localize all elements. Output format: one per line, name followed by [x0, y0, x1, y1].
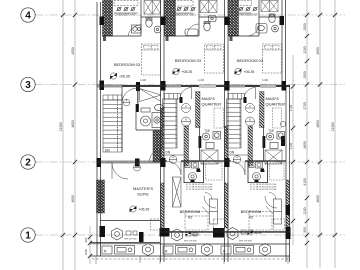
WIC dashed C [270, 163, 285, 180]
dim ticks left [61, 13, 77, 237]
svg-text:4600: 4600 [303, 141, 307, 149]
unit C [221, 246, 231, 254]
unit B sink [209, 16, 217, 22]
svg-text:BEDROOM 03: BEDROOM 03 [114, 62, 141, 67]
hexagon tables row1 [112, 228, 239, 242]
structural columns (black) [97, 16, 291, 242]
dining level markers [185, 231, 190, 236]
svg-text:1T 2L 1B 3S 1R 2W 1D 1SH: 1T 2L 1B 3S 1R 2W 1D 1SH [250, 189, 277, 191]
svg-text:1000: 1000 [303, 23, 307, 31]
unit B tub [185, 29, 198, 36]
svg-text:13350: 13350 [331, 122, 335, 131]
svg-text:13350: 13350 [59, 122, 63, 131]
unit A chute triangle [140, 89, 162, 102]
svg-text:4650: 4650 [316, 120, 320, 128]
grid bubble 1 [21, 228, 35, 242]
svg-text:MAID'S: MAID'S [202, 96, 216, 101]
bedroom02 door arcs [204, 196, 277, 208]
svg-text:MASTER'S: MASTER'S [133, 186, 153, 191]
chairs row units [117, 7, 258, 11]
condenser platform edges [114, 12, 252, 14]
svg-text:2: 2 [25, 158, 31, 169]
svg-text:MAID'S: MAID'S [266, 96, 280, 101]
unit A [102, 246, 112, 254]
svg-text:SUITE: SUITE [137, 192, 149, 197]
bottom rails [92, 256, 290, 264]
svg-text:T&B: T&B [268, 129, 274, 133]
beds bedroom03 [142, 44, 282, 75]
svg-text:1150: 1150 [303, 207, 307, 214]
svg-text:DN: DN [105, 149, 110, 153]
units B/C bedroom02 bottom walls [160, 231, 290, 233]
beds bedroom02 (dashed) [185, 207, 273, 231]
master suite label [133, 186, 153, 197]
level markers bedroom03 [110, 68, 254, 79]
svg-text:QUARTER: QUARTER [202, 102, 222, 107]
svg-text:4650: 4650 [71, 195, 75, 203]
svg-text:1.00: 1.00 [262, 78, 268, 82]
svg-text:REF DW WM: REF DW WM [184, 241, 197, 243]
WIC dashed B [206, 163, 223, 180]
tiny spec text rows [186, 184, 277, 191]
svg-text:+06.35: +06.35 [119, 75, 130, 79]
unit C bath door arc [247, 24, 259, 36]
door arcs at grid2 [112, 162, 245, 180]
maid's quarter labels [202, 96, 286, 107]
unit B stair [163, 94, 185, 156]
svg-text:BEDROOM 03: BEDROOM 03 [237, 58, 264, 63]
unit A mid door arc [122, 88, 138, 104]
svg-text:4650: 4650 [316, 195, 320, 203]
unit A sink [154, 26, 161, 33]
bedroom02 T&B unit C [248, 161, 268, 183]
shower X boxes [144, 1, 278, 15]
unit C void X [265, 150, 282, 164]
svg-text:02: 02 [188, 215, 193, 220]
svg-text:4050: 4050 [316, 47, 320, 55]
svg-text:900: 900 [84, 237, 88, 242]
door tags circles B [169, 104, 285, 164]
tiny appliance text rows [124, 239, 252, 243]
svg-text:REF DW WM: REF DW WM [239, 241, 252, 243]
svg-text:T&B: T&B [204, 129, 210, 133]
party wall A/B [160, 0, 162, 262]
svg-text:4650: 4650 [71, 120, 75, 128]
unit C maid bath fixtures [266, 132, 284, 149]
svg-text:CONDENSER UNIT: CONDENSER UNIT [114, 14, 136, 17]
master level marker [130, 206, 137, 213]
unit C stair [227, 94, 249, 156]
bedroom 03 labels [114, 58, 264, 67]
grid bubble 3 [21, 77, 35, 91]
window sill stubs below top hatch bands [103, 36, 233, 41]
unit A kitchen walls [90, 242, 160, 244]
unit A door tag [123, 99, 130, 106]
svg-text:CONDENSER UNIT: CONDENSER UNIT [236, 14, 258, 17]
unit A master bottom wall [90, 221, 290, 257]
unit A stair [103, 95, 122, 152]
right outer wall [281, 0, 283, 90]
unit B toilet [204, 22, 210, 31]
svg-text:1.00: 1.00 [198, 78, 204, 82]
svg-text:+06.35: +06.35 [244, 70, 255, 74]
entry/closet wall y=36 [102, 35, 141, 37]
kitchen counters [102, 244, 271, 256]
svg-text:1: 1 [25, 231, 31, 242]
svg-text:4150: 4150 [303, 178, 307, 186]
door width labels [140, 78, 268, 82]
svg-text:3: 3 [25, 80, 31, 91]
bedroom02 T&B unit B [184, 161, 204, 183]
grid dashed centerlines [36, 15, 346, 235]
unit B bath door arc [187, 24, 199, 36]
svg-text:1T 2L 1B 3S 1R 2W 1D 1SH: 1T 2L 1B 3S 1R 2W 1D 1SH [186, 189, 213, 191]
hatch band frames [103, 0, 113, 36]
unit A hall-to-suite door arc [150, 151, 161, 162]
unit A stair hall wall [121, 87, 123, 152]
small bottom-left dim chain [89, 226, 91, 264]
master suite closet [173, 177, 182, 207]
unit B/C mid walls y=161 [164, 160, 286, 162]
svg-text:+06.05: +06.05 [254, 231, 263, 235]
svg-text:CONDENSER UNIT: CONDENSER UNIT [173, 14, 195, 17]
svg-text:1.00: 1.00 [140, 78, 146, 82]
unit A toilet [146, 19, 152, 27]
wardrobes right bedroom02 [205, 193, 282, 225]
svg-text:+06.35: +06.35 [139, 208, 150, 212]
grid3 window wall : windows (triple line) [97, 85, 245, 87]
svg-text:REF DW WM: REF DW WM [124, 239, 137, 241]
svg-text:DN: DN [230, 151, 235, 155]
svg-text:1700: 1700 [303, 102, 307, 110]
svg-text:02: 02 [249, 215, 254, 220]
unit A grid2 wall [97, 161, 160, 163]
bath partition verticals [140, 0, 142, 36]
unit C toilet [269, 14, 275, 22]
toilets / sinks top baths [128, 14, 278, 36]
svg-text:+06.35: +06.35 [182, 70, 193, 74]
svg-text:QUARTER: QUARTER [266, 102, 286, 107]
tag numbers [126, 99, 252, 160]
svg-text:1500: 1500 [84, 248, 88, 255]
grid bubble 4 [21, 8, 35, 22]
wardrobes dashed [151, 219, 285, 230]
maid partitions vertical [136, 87, 264, 161]
grid bubble 2 [21, 155, 35, 169]
svg-text:BEDROOM 03: BEDROOM 03 [175, 58, 202, 63]
unit A mid bath [141, 104, 164, 127]
condenser labels [114, 14, 258, 17]
svg-text:+06.05: +06.05 [192, 233, 201, 237]
svg-text:4: 4 [25, 11, 31, 22]
unit B maid bath fixtures [202, 132, 220, 149]
maid cabinets dashed [214, 108, 282, 128]
closets dashed [114, 1, 252, 7]
svg-text:500: 500 [303, 227, 307, 233]
unit A vanity [132, 25, 142, 33]
left outer wall [96, 2, 98, 256]
svg-text:1150: 1150 [303, 46, 307, 53]
unit C tub [256, 24, 267, 34]
bath partition walls y=17 [141, 16, 160, 18]
unit B [163, 246, 173, 254]
unit C sink [272, 25, 279, 32]
svg-text:T&B: T&B [260, 169, 265, 173]
party wall B/C [224, 0, 226, 262]
tiny furniture beside tables [126, 230, 252, 236]
svg-text:T&B: T&B [196, 169, 201, 173]
svg-text:4050: 4050 [71, 47, 75, 55]
unit A bath door arc [128, 25, 141, 36]
grid3 window wall : solid parts [122, 85, 290, 87]
unit B void X [201, 150, 218, 164]
unit A door tag at suite [134, 164, 141, 171]
svg-text:1900: 1900 [303, 71, 307, 79]
svg-text:DN: DN [166, 151, 171, 155]
door arcs below grid3 windows [180, 88, 256, 100]
